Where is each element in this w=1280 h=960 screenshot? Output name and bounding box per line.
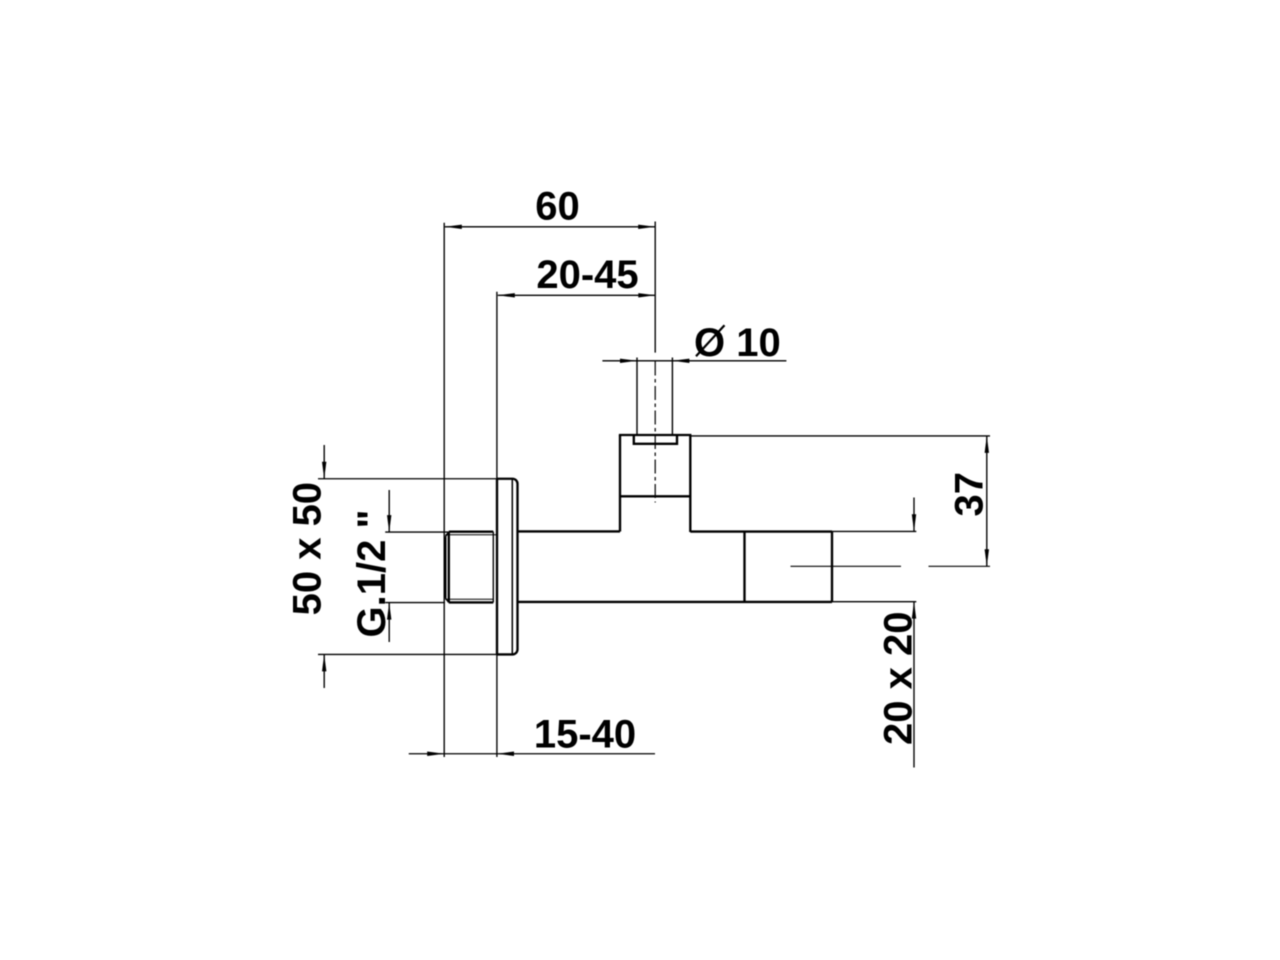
outlet centerline <box>791 565 991 567</box>
svg-text:50 x 50: 50 x 50 <box>286 482 330 615</box>
dimension 50 x 50 <box>286 445 498 688</box>
outlet joint line <box>743 532 745 602</box>
pipe socket notch <box>634 436 677 444</box>
dimension G.1/2" <box>350 490 448 642</box>
wall line left (finished wall min) <box>443 223 445 757</box>
outlet bottom extension <box>832 601 916 603</box>
svg-text:15-40: 15-40 <box>534 712 636 756</box>
svg-text:20 x 20: 20 x 20 <box>877 612 921 745</box>
wall line right (finished wall max / flange plane) <box>496 292 498 757</box>
dimension 60 <box>445 185 655 353</box>
svg-text:60: 60 <box>535 185 580 229</box>
G1/2 threaded nipple <box>445 532 496 603</box>
svg-text:20-45: 20-45 <box>536 253 638 297</box>
barrel top right <box>690 530 832 532</box>
pipe centerline <box>654 362 656 503</box>
valve body top block <box>619 435 692 532</box>
outlet end face <box>831 532 833 602</box>
dimension 20-45 <box>498 253 656 298</box>
outlet top extension <box>832 530 916 532</box>
svg-text:G.1/2 ": G.1/2 " <box>350 510 394 638</box>
dimension 20 x 20 <box>877 498 921 768</box>
wall flange 50x50 <box>497 479 518 655</box>
barrel bottom <box>518 601 833 603</box>
top extension line to 37 dim <box>691 435 990 437</box>
barrel top left <box>518 530 621 532</box>
dimension 15-40 <box>409 712 655 756</box>
dimension Ø 10 <box>602 321 786 365</box>
svg-text:37: 37 <box>948 472 992 517</box>
dimension 37 <box>948 436 992 566</box>
riser pipe Ø10 <box>637 358 672 435</box>
